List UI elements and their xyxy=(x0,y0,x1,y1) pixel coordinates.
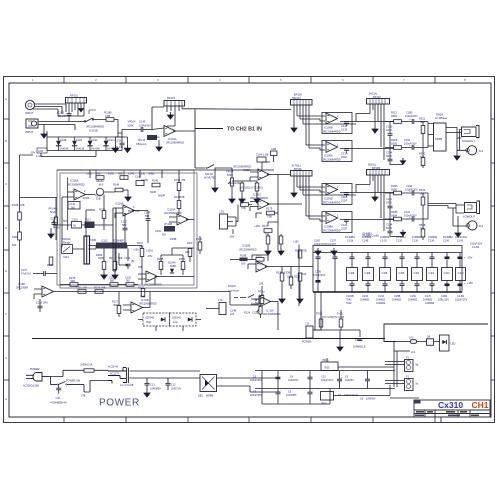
cap columns xyxy=(318,248,460,293)
svg-text:JW2: JW2 xyxy=(38,150,44,153)
svg-text:C146: C146 xyxy=(124,257,131,260)
op-amp IC109B box xyxy=(322,184,352,205)
svg-text:+: + xyxy=(409,215,411,219)
jumper G2 wire xyxy=(394,350,410,352)
ground arrows end of input bus xyxy=(116,137,128,145)
svg-text:56C(A): 56C(A) xyxy=(369,92,377,96)
transistor JP04B dark xyxy=(164,226,175,232)
wires lower filter xyxy=(96,246,155,285)
svg-text:JRC2068ARDD: JRC2068ARDD xyxy=(67,184,85,187)
svg-text:D103: D103 xyxy=(108,139,115,142)
svg-text:54WB: 54WB xyxy=(435,137,442,141)
diode D103 xyxy=(103,141,108,146)
svg-text:04B: 04B xyxy=(185,251,190,254)
svg-text:X114: X114 xyxy=(63,256,69,259)
svg-text:C150: C150 xyxy=(406,184,413,188)
wire loop around IC101A xyxy=(152,107,291,130)
wire RCA to switch xyxy=(38,122,84,132)
svg-text:472N4BBB-AA: 472N4BBB-AA xyxy=(50,402,67,405)
connector AC plug xyxy=(26,373,51,382)
svg-text:C125: C125 xyxy=(386,125,393,129)
svg-text:TO CH2 B1 IN: TO CH2 B1 IN xyxy=(227,127,262,133)
ground below IC101A xyxy=(158,140,160,144)
svg-text:POWER: POWER xyxy=(30,368,40,371)
svg-text:04B: 04B xyxy=(96,173,101,176)
ground arrow BP106 xyxy=(291,125,297,132)
svg-text:C12: C12 xyxy=(171,384,176,387)
svg-text:LOWOUT: LOWOUT xyxy=(463,215,476,219)
svg-text:IC113: IC113 xyxy=(101,240,108,243)
svg-text:C2B: C2B xyxy=(271,147,276,151)
svg-text:04B: 04B xyxy=(101,287,106,290)
svg-text:(-15V): (-15V) xyxy=(146,250,153,253)
svg-text:1D4MB2: 1D4MB2 xyxy=(345,236,355,239)
svg-text:1-16V: 1-16V xyxy=(36,155,43,158)
connector HIGHOUT xyxy=(462,126,480,155)
svg-text:54B: 54B xyxy=(180,196,185,199)
wire bottom row xyxy=(60,284,138,286)
op-amp IC102B triangle xyxy=(256,261,268,272)
svg-text:J 02: J 02 xyxy=(219,210,224,214)
svg-text:C1D: C1D xyxy=(458,271,465,275)
bottom bus wire xyxy=(313,292,462,294)
block border inner xyxy=(60,173,197,288)
wire IC111A out down rail xyxy=(277,175,279,251)
RP103 pins and wires xyxy=(167,106,195,126)
svg-text:DB2: DB2 xyxy=(198,395,203,398)
svg-text:JRC2068ARDD: JRC2068ARDD xyxy=(323,130,341,134)
svg-text:1B00: 1B00 xyxy=(391,114,398,118)
svg-text:JRC2068ARDD: JRC2068ARDD xyxy=(166,141,184,145)
svg-text:104Z5V: 104Z5V xyxy=(345,379,354,382)
svg-text:C1A3: C1A3 xyxy=(36,302,43,305)
svg-text:JRC2068A: JRC2068A xyxy=(16,287,28,290)
svg-text:+15V: +15V xyxy=(133,249,139,252)
svg-text:C1B: C1B xyxy=(349,271,355,275)
BP107 pins xyxy=(294,176,309,219)
svg-text:R142: R142 xyxy=(108,173,115,176)
svg-text:POWER: POWER xyxy=(99,398,140,409)
svg-text:C14B: C14B xyxy=(128,173,135,176)
svg-text:AC23-4V: AC23-4V xyxy=(108,366,118,369)
svg-text:C126: C126 xyxy=(341,128,348,132)
frame zone letters xyxy=(5,78,466,401)
diode D105 xyxy=(72,141,77,146)
switch SW-3A HI MUTE xyxy=(195,165,222,169)
svg-text:100uF/25V: 100uF/25V xyxy=(455,299,468,302)
svg-text:R1B5: R1B5 xyxy=(391,210,398,214)
svg-text:C121: C121 xyxy=(386,197,393,201)
svg-text:R172: R172 xyxy=(266,207,273,211)
svg-text:5W0A: 5W0A xyxy=(436,113,443,117)
svg-text:T0B: T0B xyxy=(267,215,272,219)
ground under C13 xyxy=(144,390,150,397)
svg-text:R112: R112 xyxy=(391,111,398,115)
svg-text:R16B: R16B xyxy=(170,238,177,241)
bridge rectifier DB W04M xyxy=(200,375,217,392)
svg-text:R145: R145 xyxy=(150,191,157,194)
svg-text:R12B: R12B xyxy=(294,276,301,279)
svg-text:Cx310: Cx310 xyxy=(438,400,463,410)
svg-text:5R3J: 5R3J xyxy=(386,226,393,230)
svg-text:JRC2068ARDD: JRC2068ARDD xyxy=(164,212,182,215)
ground under J01 xyxy=(337,344,343,351)
wire LED row xyxy=(394,341,440,343)
svg-text:503K: 503K xyxy=(128,123,134,127)
wire long separator xyxy=(32,338,385,340)
connector LOWOUT xyxy=(465,201,480,230)
svg-text:R11B: R11B xyxy=(391,138,398,142)
svg-text:C10: C10 xyxy=(56,397,61,400)
svg-text:D10B: D10B xyxy=(60,139,67,142)
svg-text:XL4: XL4 xyxy=(479,224,484,228)
svg-text:C1-02: C1-02 xyxy=(380,240,387,243)
svg-text:R10B: R10B xyxy=(240,255,247,258)
svg-text:C111: C111 xyxy=(76,287,82,290)
svg-text:1042NB4: 1042NB4 xyxy=(286,394,297,397)
svg-text:1042N5V: 1042N5V xyxy=(288,379,299,382)
svg-text:104MB2: 104MB2 xyxy=(360,299,370,302)
svg-text:C136: C136 xyxy=(428,240,435,243)
capacitor C12t xyxy=(166,383,171,385)
svg-text:7815: 7815 xyxy=(324,367,330,370)
lower cap columns xyxy=(352,281,460,293)
svg-text:C134: C134 xyxy=(386,223,393,227)
svg-text:1R2J: 1R2J xyxy=(386,201,393,205)
capacitor C13 xyxy=(145,383,150,385)
svg-text:Low: Low xyxy=(173,321,178,324)
ground arrow under C134 xyxy=(400,158,405,164)
svg-text:R1M: R1M xyxy=(187,242,192,245)
svg-text:54B: 54B xyxy=(139,246,144,249)
svg-text:R15B: R15B xyxy=(157,258,164,261)
svg-text:WV-1(E12+7E1B.0): WV-1(E12+7E1B.0) xyxy=(240,186,263,190)
svg-text:IC1110: IC1110 xyxy=(253,193,262,197)
op-amp IC109A box xyxy=(322,212,352,233)
polarized caps row2 right xyxy=(445,284,450,287)
svg-text:C145: C145 xyxy=(86,173,93,176)
svg-text:R1AB: R1AB xyxy=(12,204,19,207)
wire to CH2 xyxy=(195,128,223,130)
svg-text:IC101B: IC101B xyxy=(89,129,98,133)
svg-text:JRC2068ARDD: JRC2068ARDD xyxy=(323,229,341,233)
svg-text:R17B: R17B xyxy=(239,198,246,202)
svg-text:T0B: T0B xyxy=(302,250,307,253)
svg-text:221P: 221P xyxy=(341,227,347,231)
wires switch to jack xyxy=(446,128,467,154)
svg-text:C1B: C1B xyxy=(399,271,405,275)
slide pot double vertical xyxy=(113,208,116,271)
svg-text:C12B: C12B xyxy=(252,312,259,315)
bus wires psu xyxy=(255,371,395,405)
cap plates row1 xyxy=(316,257,321,259)
svg-text:DN122: DN122 xyxy=(228,285,236,288)
svg-text:C134: C134 xyxy=(386,151,393,155)
svg-text:J2B: J2B xyxy=(259,283,264,286)
svg-text:5B2: 5B2 xyxy=(122,224,127,227)
svg-text:10B: 10B xyxy=(20,204,25,207)
svg-text:X11B: X11B xyxy=(90,239,96,242)
svg-text:J 0b: J 0b xyxy=(218,299,223,302)
svg-text:JRC2068ARDD: JRC2068ARDD xyxy=(233,165,251,169)
wire right section separator xyxy=(384,324,488,342)
svg-text:JRC2068ARDD: JRC2068ARDD xyxy=(323,158,341,162)
svg-text:C143: C143 xyxy=(457,240,464,243)
svg-text:104: 104 xyxy=(230,313,235,316)
svg-text:50K: 50K xyxy=(420,155,425,159)
ground arrow BP132 xyxy=(372,126,378,133)
wire below leds xyxy=(156,326,183,331)
capacitor C141 box xyxy=(68,202,80,210)
resistor R105 xyxy=(147,135,157,140)
op-amp IC106B box xyxy=(322,113,352,134)
ground arrows under row xyxy=(101,272,107,279)
svg-text:INPUT: INPUT xyxy=(25,130,34,134)
diode D104 xyxy=(56,141,61,146)
ground RP103 xyxy=(168,112,174,119)
vertical rails to fuses xyxy=(394,342,397,388)
svg-text:50vK: 50vK xyxy=(50,211,56,214)
svg-text:2N5A/0.5A: 2N5A/0.5A xyxy=(80,364,92,367)
slide pot tall element xyxy=(84,236,90,264)
svg-text:C1-B4: C1-B4 xyxy=(472,246,480,249)
svg-text:JRC2068ARDD: JRC2068ARDD xyxy=(323,201,341,205)
svg-text:+: + xyxy=(409,189,411,193)
svg-text:LED040: LED040 xyxy=(145,317,155,320)
svg-text:104MB2: 104MB2 xyxy=(392,299,402,302)
svg-text:HI 3Phase: HI 3Phase xyxy=(435,116,448,120)
svg-text:R148: R148 xyxy=(113,184,120,187)
connector RCA input jack xyxy=(26,119,38,128)
wire box mid connections xyxy=(57,210,148,243)
svg-text:R1B5: R1B5 xyxy=(391,184,398,188)
BP138 pins xyxy=(370,175,384,231)
svg-text:50K: 50K xyxy=(420,120,425,124)
wires BP107 to op-amps xyxy=(297,187,356,221)
title block texts xyxy=(415,400,489,416)
svg-text:47uF/3.6: 47uF/3.6 xyxy=(21,273,31,276)
svg-text:R156: R156 xyxy=(179,258,186,261)
svg-text:50K: 50K xyxy=(420,227,425,231)
capacitor C5 lower xyxy=(308,392,313,394)
svg-text:TC064BP: TC064BP xyxy=(113,240,124,243)
diode bus wires xyxy=(47,131,122,151)
svg-text:HI MUTE: HI MUTE xyxy=(204,176,215,180)
svg-text:1AA: 1AA xyxy=(155,136,160,139)
svg-text:503B: 503B xyxy=(170,265,176,268)
svg-text:100uF/20V: 100uF/20V xyxy=(405,188,418,192)
connector XLR input jack xyxy=(25,100,34,109)
ground arrows above cluster xyxy=(268,234,281,248)
svg-text:04B: 04B xyxy=(135,210,140,213)
wire rail2 high xyxy=(385,147,428,149)
svg-text:1D4MB2: 1D4MB2 xyxy=(443,236,453,239)
svg-text:POWER: POWER xyxy=(302,341,312,344)
wire rail2 low xyxy=(385,218,428,220)
op-amp IC101A xyxy=(164,126,176,137)
switch SW102 xyxy=(234,295,254,298)
svg-text:(B): (B) xyxy=(131,260,135,263)
frame zone tick marks bottom xyxy=(64,417,435,423)
frame zone tick marks top xyxy=(64,77,435,84)
svg-text:1K5: 1K5 xyxy=(241,263,246,266)
wire rail1 high xyxy=(385,121,428,123)
svg-text:G-2: G-2 xyxy=(411,351,416,354)
op-amp IC106A box xyxy=(322,141,352,162)
svg-text:R51B: R51B xyxy=(419,223,426,227)
svg-text:R123: R123 xyxy=(295,250,302,253)
svg-text:IC103A: IC103A xyxy=(115,203,124,206)
LED box LED041 Low xyxy=(170,313,197,326)
svg-text:IC106B: IC106B xyxy=(324,126,333,130)
svg-text:CH1: CH1 xyxy=(472,400,489,410)
svg-text:1.0B: 1.0B xyxy=(263,153,269,157)
svg-text:CB(level): CB(level) xyxy=(136,143,146,146)
op-amp IC102A xyxy=(259,296,271,307)
ground arrows inside bank xyxy=(315,248,321,255)
resistor R125 on rail xyxy=(298,273,302,281)
wire jumper bottom xyxy=(41,151,96,157)
svg-text:J 0l: J 0l xyxy=(305,323,309,326)
ground under mute xyxy=(214,168,216,185)
svg-text:R17B: R17B xyxy=(276,272,283,275)
svg-text:1N4148: 1N4148 xyxy=(60,148,69,151)
svg-text:R 0B: R 0B xyxy=(337,313,343,316)
BP132 pins xyxy=(370,104,384,160)
svg-text:7042: 7042 xyxy=(346,302,352,305)
svg-text:22 1P: 22 1P xyxy=(58,114,66,118)
svg-text:C10: C10 xyxy=(429,271,435,275)
op-amp IC104B xyxy=(146,271,158,282)
svg-text:JRC2068ARDD: JRC2068ARDD xyxy=(144,284,162,287)
svg-text:201P: 201P xyxy=(341,155,347,159)
analog switch IC101B xyxy=(84,110,106,122)
sheet outer frame xyxy=(4,77,495,423)
wire op-amp outputs to right column xyxy=(340,114,394,149)
svg-text:5600P: 5600P xyxy=(158,195,166,198)
svg-text:5B2: 5B2 xyxy=(110,280,115,283)
op-amp IC104Bb xyxy=(131,302,143,313)
ground xyxy=(41,131,47,138)
wires regs xyxy=(327,358,394,396)
svg-text:C164: C164 xyxy=(256,153,263,157)
block border outer xyxy=(57,170,194,285)
wires bridge out xyxy=(217,378,281,392)
svg-text:56O(L): 56O(L) xyxy=(368,163,376,167)
svg-text:+15V: +15V xyxy=(467,282,473,285)
ground arrow low column xyxy=(400,230,405,236)
svg-text:C1B5: C1B5 xyxy=(406,111,413,115)
svg-text:C110: C110 xyxy=(72,219,78,222)
LED indicator box xyxy=(440,335,450,351)
cap bank enclosure box xyxy=(313,246,462,292)
top bus wire xyxy=(313,252,462,254)
svg-text:5U: 5U xyxy=(73,225,76,228)
wire J02 to stage xyxy=(233,205,252,235)
svg-text:1D4MB2: 1D4MB2 xyxy=(362,233,372,236)
svg-text:1B05: 1B05 xyxy=(391,142,398,146)
svg-text:7B1 b: 7B1 b xyxy=(322,359,329,362)
svg-text:R51F: R51F xyxy=(419,188,426,192)
svg-text:+: + xyxy=(409,144,411,148)
svg-text:104MB2: 104MB2 xyxy=(425,302,435,305)
svg-text:IC105A: IC105A xyxy=(70,180,79,183)
svg-text:B-T0(L): B-T0(L) xyxy=(292,164,301,168)
svg-text:51K: 51K xyxy=(302,273,307,276)
svg-text:B: B xyxy=(5,139,7,143)
svg-text:J7B: J7B xyxy=(81,395,86,398)
svg-text:IC106A: IC106A xyxy=(324,154,333,158)
svg-text:-15V: -15V xyxy=(467,257,473,260)
wires rails to LOWOUT xyxy=(428,193,467,230)
svg-text:1042Y5V: 1042Y5V xyxy=(171,388,182,391)
svg-text:-18V: -18V xyxy=(30,152,36,155)
svg-text:R146: R146 xyxy=(152,180,159,183)
svg-text:IC101A: IC101A xyxy=(168,137,177,141)
title block xyxy=(414,400,490,423)
ground below LOWOUT xyxy=(455,230,461,237)
svg-text:Range: Range xyxy=(63,242,71,245)
svg-text:-15V: -15V xyxy=(147,255,153,258)
svg-text:+: + xyxy=(409,118,411,122)
svg-text:1K2: 1K2 xyxy=(409,337,414,340)
svg-text:C1B: C1B xyxy=(382,271,388,275)
svg-text:E: E xyxy=(5,269,7,273)
svg-text:JRC2068ARDD: JRC2068ARDD xyxy=(86,125,104,129)
svg-text:C1B: C1B xyxy=(365,271,371,275)
ground pin RP101 xyxy=(78,106,83,112)
regulator 7915 xyxy=(321,392,334,401)
svg-text:R174: R174 xyxy=(94,287,101,290)
ground arrow BP107 xyxy=(291,190,297,197)
svg-text:JP 04B: JP 04B xyxy=(164,223,172,226)
frame zone tick marks right xyxy=(491,119,495,380)
svg-text:1N4148: 1N4148 xyxy=(76,148,85,151)
svg-text:LED: LED xyxy=(451,343,456,346)
svg-text:C122: C122 xyxy=(404,210,411,214)
resistor R123 on rail xyxy=(298,250,302,258)
svg-text:A: A xyxy=(5,97,7,101)
small parts below box top xyxy=(96,176,104,180)
svg-text:IC10BA: IC10BA xyxy=(324,225,333,229)
svg-text:C157: C157 xyxy=(330,243,337,246)
svg-text:C135: C135 xyxy=(396,240,403,243)
svg-text:POWER SW: POWER SW xyxy=(66,380,81,383)
svg-text:D11B: D11B xyxy=(76,139,82,142)
svg-text:1D4MB2: 1D4MB2 xyxy=(396,236,406,239)
svg-text:High: High xyxy=(146,321,152,324)
svg-text:70K: 70K xyxy=(181,179,186,182)
svg-text:1R0: 1R0 xyxy=(43,302,48,305)
svg-text:+18V: +18V xyxy=(293,241,299,244)
svg-text:T02: T02 xyxy=(265,232,270,236)
svg-text:1N4148: 1N4148 xyxy=(91,148,100,151)
svg-text:67DB: 67DB xyxy=(284,272,291,275)
svg-text:104EM5V: 104EM5V xyxy=(150,388,161,391)
svg-text:C152: C152 xyxy=(155,230,162,233)
svg-text:1R2J: 1R2J xyxy=(386,128,393,132)
svg-text:IC102B: IC102B xyxy=(242,245,251,248)
wire to VR02 from left xyxy=(229,292,231,306)
wire op-amp outputs to right column low xyxy=(340,185,394,220)
svg-text:C1D: C1D xyxy=(444,271,451,275)
svg-text:INPUT: INPUT xyxy=(25,111,34,115)
svg-text:RP101: RP101 xyxy=(70,94,78,98)
svg-text:221P: 221P xyxy=(341,199,347,203)
ground arrows below xyxy=(279,296,285,303)
wires fuse connections xyxy=(385,362,419,399)
svg-text:M-3: M-3 xyxy=(99,184,104,187)
